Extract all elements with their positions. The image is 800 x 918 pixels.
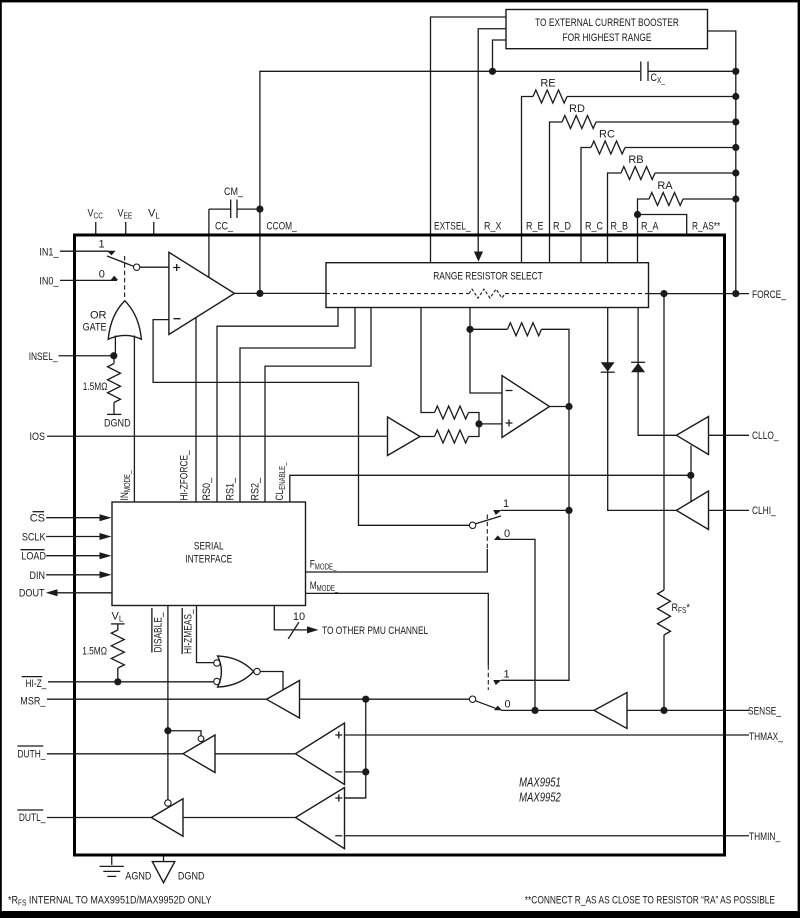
junction feedback bbox=[466, 326, 473, 333]
wire OR left input to INSEL bbox=[114, 336, 116, 356]
dashed range resistor bbox=[469, 289, 505, 298]
svg-text:1: 1 bbox=[503, 669, 509, 681]
svg-text:DIN: DIN bbox=[30, 570, 46, 582]
svg-text:DGND: DGND bbox=[104, 418, 131, 430]
frame bottom bbox=[0, 911, 800, 918]
wire A1 inverting feedback bbox=[153, 320, 469, 526]
svg-text:LOAD: LOAD bbox=[21, 551, 46, 563]
svg-text:AGND: AGND bbox=[125, 871, 151, 883]
dashed switch control bbox=[124, 256, 126, 299]
wire CCOM to CX line bbox=[260, 71, 640, 293]
svg-text:CS: CS bbox=[30, 513, 45, 525]
switch FMODE pos0 bbox=[494, 528, 535, 710]
svg-text:TO OTHER PMU CHANNEL: TO OTHER PMU CHANNEL bbox=[322, 625, 428, 637]
switch MSR lever bbox=[476, 701, 496, 709]
diode D1 bbox=[601, 308, 677, 511]
buffer MSR bbox=[267, 681, 300, 719]
svg-text:CC_: CC_ bbox=[215, 220, 234, 232]
wire FORCE down to RFS bbox=[663, 294, 665, 590]
svg-text:*RFS INTERNAL TO MAX9951D/MAX9: *RFS INTERNAL TO MAX9951D/MAX9952D ONLY bbox=[8, 895, 212, 908]
pin HI-Z_ bbox=[22, 677, 214, 690]
op-amp A2 bbox=[502, 376, 550, 438]
op-amp A1 force amplifier bbox=[169, 252, 235, 334]
wire range to A2 - input bbox=[470, 308, 502, 394]
resistor range upper bbox=[421, 308, 479, 424]
bus RS2_ bbox=[265, 308, 371, 503]
svg-text:THMAX_: THMAX_ bbox=[749, 731, 784, 743]
supply VL pullup bbox=[82, 611, 124, 682]
svg-text:RB: RB bbox=[628, 154, 643, 166]
wire MMODE_ bbox=[306, 593, 488, 665]
svg-text:HI-Z_: HI-Z_ bbox=[26, 678, 48, 690]
junction clamp hi bbox=[565, 507, 572, 514]
pin VCC bbox=[88, 208, 104, 236]
wire pin CC_ to amp bbox=[208, 209, 210, 277]
junction A1 output CCOM bbox=[256, 290, 263, 297]
pin DOUT bbox=[19, 588, 112, 600]
pin VL bbox=[148, 208, 160, 236]
svg-text:SENSE_: SENSE_ bbox=[748, 705, 782, 717]
svg-text:R_A: R_A bbox=[641, 220, 659, 232]
bus RS0_ bbox=[217, 308, 338, 503]
NOR gate bbox=[214, 656, 261, 687]
junction CM-CCOM bbox=[256, 206, 263, 213]
svg-text:R_X: R_X bbox=[484, 220, 502, 232]
svg-text:0: 0 bbox=[504, 699, 510, 711]
wire A2 out down to switch bbox=[501, 407, 569, 681]
svg-text:0: 0 bbox=[99, 269, 105, 281]
buffer DUTL bbox=[151, 799, 183, 837]
wire A1 output bbox=[235, 292, 327, 294]
dashed range line bbox=[326, 293, 469, 295]
svg-text:1.5MΩ: 1.5MΩ bbox=[82, 646, 107, 658]
frame left bbox=[0, 0, 2, 918]
junction clamp enable bbox=[687, 472, 694, 479]
wire DUTH to THMAX bbox=[215, 753, 296, 755]
svg-text:INTERFACE: INTERFACE bbox=[185, 554, 232, 566]
wire DUTL to THMIN bbox=[183, 817, 296, 819]
ground DGND symbol bbox=[152, 857, 204, 883]
pin DIN bbox=[30, 570, 112, 582]
wire SENSE input bbox=[627, 709, 749, 711]
resistor RC bbox=[581, 129, 739, 263]
wire R_AS tap bbox=[638, 215, 687, 236]
junction A2 out bbox=[565, 403, 572, 410]
pin LOAD bbox=[21, 550, 112, 563]
chip border bbox=[75, 235, 725, 855]
svg-text:THMIN_: THMIN_ bbox=[749, 831, 781, 843]
frame right bbox=[798, 0, 800, 918]
external current booster box bbox=[506, 10, 708, 49]
junction THMAX - bbox=[362, 768, 369, 775]
wire MSR tap to comparators bbox=[345, 699, 366, 798]
range resistor select box bbox=[326, 263, 649, 308]
svg-text:DOUT: DOUT bbox=[19, 588, 45, 600]
switch MSR common bbox=[469, 696, 475, 702]
svg-text:EXTSEL_: EXTSEL_ bbox=[434, 220, 471, 232]
junction HI-Z pullup bbox=[114, 678, 121, 685]
switch FMODE pos1 bbox=[493, 498, 569, 515]
svg-text:RS2_: RS2_ bbox=[249, 477, 261, 500]
pin IOS bbox=[30, 431, 388, 443]
svg-text:DUTH_: DUTH_ bbox=[18, 748, 47, 760]
svg-text:IN1_: IN1_ bbox=[39, 247, 59, 259]
svg-text:RD: RD bbox=[569, 103, 585, 115]
wire switch to A1 + bbox=[140, 266, 169, 268]
pin CS bbox=[30, 512, 112, 525]
svg-text:1: 1 bbox=[503, 498, 509, 510]
resistor RE bbox=[522, 78, 740, 263]
svg-text:CLHI_: CLHI_ bbox=[752, 505, 776, 517]
switch MSR pos1 bbox=[493, 669, 569, 685]
resistor A2 feedback bbox=[470, 323, 569, 406]
wire CX to bus bbox=[648, 70, 736, 72]
svg-text:CM_: CM_ bbox=[224, 186, 244, 198]
bus 10 to other PMU bbox=[274, 606, 428, 639]
svg-text:1: 1 bbox=[98, 239, 104, 251]
svg-text:RANGE RESISTOR SELECT: RANGE RESISTOR SELECT bbox=[433, 271, 543, 283]
OR gate bbox=[83, 301, 142, 340]
resistor IOS lower bbox=[435, 424, 480, 443]
svg-text:HI-ZMEAS_: HI-ZMEAS_ bbox=[182, 609, 194, 654]
label MAX9951 MAX9952 bbox=[519, 775, 561, 804]
pin IN1_ bbox=[39, 239, 115, 259]
pin DUTL_ bbox=[17, 810, 151, 824]
svg-text:IOS: IOS bbox=[30, 431, 46, 443]
wire FMODE_ bbox=[306, 549, 487, 572]
junction CX-CCOM node bbox=[489, 68, 496, 75]
frame top bbox=[0, 0, 800, 2]
wire MSR buffer input bbox=[300, 698, 470, 700]
ground AGND symbol bbox=[100, 857, 152, 883]
svg-text:0: 0 bbox=[504, 528, 510, 540]
wire to A2 + bbox=[479, 423, 502, 425]
svg-text:MSR_: MSR_ bbox=[20, 696, 46, 708]
switch FMODE control dashed bbox=[486, 515, 488, 550]
svg-text:RS0_: RS0_ bbox=[201, 477, 213, 500]
wire booster to EXTSEL_ pin bbox=[431, 17, 507, 263]
svg-text:R_E: R_E bbox=[526, 220, 544, 232]
buffer CLHI bbox=[676, 491, 749, 530]
wire OR right input INMODE_ bbox=[133, 336, 135, 503]
junction A2 + input bbox=[475, 420, 482, 427]
resistor RFS bbox=[658, 590, 691, 710]
resistor RB bbox=[608, 154, 740, 263]
wire NOR out to MSR buffer enable bbox=[260, 672, 283, 690]
svg-text:MAX9952: MAX9952 bbox=[519, 790, 561, 804]
svg-text:SERIAL: SERIAL bbox=[194, 541, 224, 553]
svg-text:RC: RC bbox=[599, 129, 615, 141]
wire clamp enable vertical bbox=[690, 446, 692, 502]
label DISABLE_ rotated bbox=[152, 608, 164, 653]
svg-text:RE: RE bbox=[540, 78, 555, 90]
svg-text:GATE: GATE bbox=[83, 322, 107, 334]
pin SCLK bbox=[22, 532, 112, 544]
junction bus-force bbox=[732, 290, 739, 297]
junction sense-fmode0 bbox=[531, 707, 538, 714]
pin DUTH_ bbox=[17, 746, 183, 760]
svg-text:FOR HIGHEST RANGE: FOR HIGHEST RANGE bbox=[563, 32, 652, 44]
buffer DUTH bbox=[164, 727, 215, 772]
serial interface box bbox=[112, 502, 306, 606]
buffer CLLO bbox=[676, 417, 749, 455]
svg-text:RA: RA bbox=[657, 180, 673, 192]
svg-text:SCLK: SCLK bbox=[22, 532, 46, 544]
resistor 1.5M INSEL bbox=[83, 356, 121, 415]
svg-text:HI-ZFORCE_: HI-ZFORCE_ bbox=[178, 450, 190, 501]
comparator THMAX bbox=[296, 723, 750, 785]
svg-text:INSEL_: INSEL_ bbox=[29, 351, 58, 363]
svg-text:OR: OR bbox=[90, 310, 107, 322]
svg-text:R_B: R_B bbox=[611, 220, 629, 232]
arrow R_X into range select bbox=[474, 252, 483, 262]
junction sense-RFS bbox=[660, 707, 667, 714]
svg-text:R_C: R_C bbox=[585, 220, 603, 232]
junction bus-CX bbox=[732, 68, 739, 75]
capacitor CX_ bbox=[641, 62, 666, 86]
wire A2 output bbox=[550, 406, 570, 408]
svg-text:R_D: R_D bbox=[553, 220, 571, 232]
bus RS1_ bbox=[240, 308, 355, 503]
svg-text:10: 10 bbox=[293, 611, 305, 623]
wire booster to CX node bbox=[493, 40, 507, 71]
svg-text:IN0_: IN0_ bbox=[39, 275, 59, 287]
wire SENSE line bbox=[501, 709, 594, 711]
pin INSEL_ bbox=[29, 351, 118, 363]
input switch lever bbox=[107, 256, 134, 266]
ground DGND (INSEL) bbox=[104, 414, 131, 429]
svg-text:CLLO_: CLLO_ bbox=[752, 430, 779, 442]
svg-text:R_AS**: R_AS** bbox=[692, 220, 721, 232]
junction RA / R_AS bbox=[634, 211, 641, 218]
svg-text:1.5MΩ: 1.5MΩ bbox=[83, 381, 108, 393]
junction force node bbox=[660, 290, 667, 297]
svg-text:DUTL_: DUTL_ bbox=[19, 812, 46, 824]
wire HI-ZMEAS_ bbox=[197, 606, 214, 663]
pin MSR_ bbox=[20, 696, 266, 708]
comparator THMIN bbox=[296, 788, 750, 849]
svg-text:DGND: DGND bbox=[178, 871, 205, 883]
svg-text:FORCE_: FORCE_ bbox=[752, 289, 787, 301]
wire CLENABLE bbox=[290, 475, 691, 502]
svg-text:RS1_: RS1_ bbox=[225, 477, 237, 500]
switch MSR control dashed bbox=[487, 665, 489, 690]
buffer IOS bbox=[388, 417, 421, 456]
switch FMODE common bbox=[469, 522, 475, 528]
wire booster right to bus bbox=[708, 31, 736, 294]
buffer SENSE bbox=[594, 693, 627, 729]
junction MSR THMAX tap bbox=[362, 696, 369, 703]
svg-text:DISABLE_: DISABLE_ bbox=[152, 612, 164, 653]
svg-text:TO EXTERNAL CURRENT BOOSTER: TO EXTERNAL CURRENT BOOSTER bbox=[535, 17, 679, 29]
label HI-ZMEAS_ rotated bbox=[182, 608, 194, 654]
wire DISABLE_ bbox=[167, 606, 169, 800]
resistor RD bbox=[550, 103, 740, 263]
input switch common bbox=[134, 264, 140, 270]
wire A1 hi-z force (to serial) bbox=[195, 318, 197, 502]
capacitor CM_ bbox=[209, 186, 260, 218]
wire force output to FORCE_ bbox=[649, 293, 750, 295]
switch FMODE lever bbox=[476, 516, 501, 524]
svg-text:**CONNECT R_AS AS CLOSE TO RES: **CONNECT R_AS AS CLOSE TO RESISTOR “RA”… bbox=[525, 895, 775, 907]
wire booster to R_X pin bbox=[478, 29, 506, 253]
switch MSR pos0 bbox=[494, 699, 511, 711]
pin VEE bbox=[118, 208, 133, 236]
resistor RA bbox=[638, 180, 740, 263]
pin IN0_ bbox=[39, 269, 118, 288]
svg-text:MAX9951: MAX9951 bbox=[519, 775, 561, 789]
svg-text:CCOM_: CCOM_ bbox=[267, 220, 298, 232]
diode D2 bbox=[631, 308, 676, 436]
wire IOS buffer out bbox=[420, 436, 435, 438]
